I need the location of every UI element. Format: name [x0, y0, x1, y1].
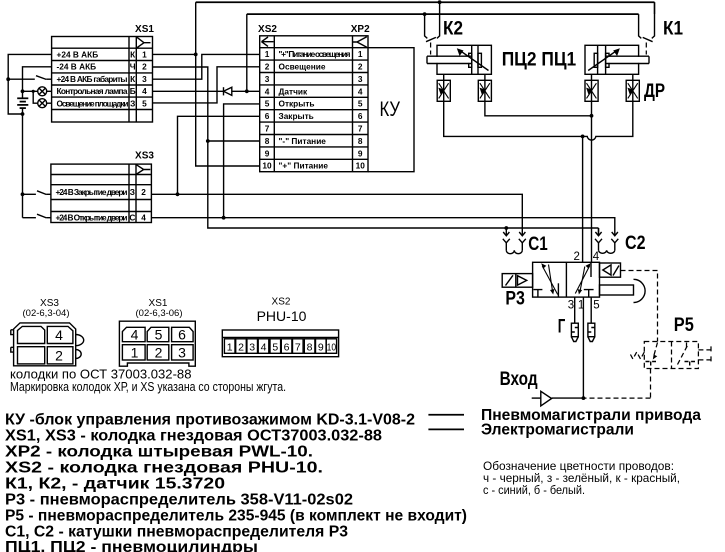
- valve P3 body: [533, 262, 600, 297]
- pneumatic line port5 to muffler: [590, 297, 592, 323]
- wire XS1 pin1 left to battery circuit: [8, 54, 51, 114]
- junction lamp2 branch: [32, 90, 35, 93]
- svg-text:5: 5: [265, 99, 270, 109]
- svg-text:1: 1: [131, 345, 139, 361]
- wire open net to coil C2: [151, 218, 614, 236]
- svg-text:Маркировка колодок ХР, и XS ук: Маркировка колодок ХР, и XS указана со с…: [10, 380, 286, 394]
- svg-text:10: 10: [327, 341, 337, 353]
- svg-text:ПЦ1, ПЦ2 - пневмоцилиндры: ПЦ1, ПЦ2 - пневмоцилиндры: [5, 539, 258, 552]
- svg-text:С1, С2 - катушки пневмораспред: С1, С2 - катушки пневмораспределителя Р3: [5, 524, 348, 541]
- svg-text:Освещение: Освещение: [279, 62, 326, 72]
- legend pneumatic line sample: [428, 414, 464, 416]
- svg-text:Электромагистрали: Электромагистрали: [481, 422, 634, 439]
- wire -24V to XS2 pin8: [208, 140, 260, 142]
- XS1 cell 5: [147, 327, 169, 341]
- pneumatic line port4 group: [485, 101, 592, 116]
- throttle check valve PC2 left: [437, 74, 450, 101]
- coil C1: [503, 228, 526, 254]
- valve P3 solenoid pilot left: [502, 274, 532, 288]
- connector face XS1 body: [119, 321, 195, 366]
- svg-text:4: 4: [593, 251, 600, 263]
- diode VD1: [224, 87, 232, 95]
- wire top bus +24V (line1): [196, 1, 655, 3]
- svg-text:Р3: Р3: [505, 289, 525, 310]
- sensor K2 contacts: [425, 2, 440, 42]
- switch SA2 close door: [23, 191, 51, 195]
- XS2 left pin numbers: [262, 49, 272, 171]
- lamp HL2 platform light: [38, 99, 52, 108]
- svg-text:3: 3: [358, 74, 363, 84]
- svg-text:Контрольная лампа: Контрольная лампа: [57, 86, 128, 96]
- svg-text:К2: К2: [443, 19, 463, 40]
- svg-text:Освещение площадки: Освещение площадки: [57, 98, 129, 108]
- throttle check valve PC2 right: [478, 74, 491, 101]
- junction coil C1 left: [504, 226, 508, 230]
- valve P3 return rod and spring: [600, 279, 646, 302]
- pilot dashed line P3 to P5: [621, 271, 658, 342]
- svg-text:-24 В АКБ: -24 В АКБ: [57, 62, 97, 72]
- XP2 header plug symbol: [353, 37, 367, 47]
- svg-text:2: 2: [238, 341, 244, 353]
- svg-text:К1: К1: [663, 19, 683, 40]
- svg-text:2: 2: [155, 345, 163, 361]
- svg-text:3: 3: [142, 74, 147, 84]
- svg-text:Р3 - пневмораспределитель 358-: Р3 - пневмораспределитель 358-V11-02s02: [5, 492, 353, 509]
- XS2 face pin numbers: [227, 341, 336, 353]
- svg-text:2: 2: [141, 187, 146, 197]
- sensor K1 actuation dashed link: [645, 43, 647, 55]
- junction -24V to XS2 pin8: [206, 139, 210, 143]
- wire +24V vertical from XS1 pin1 up to top bus and down to XS2 pin10: [196, 2, 260, 166]
- svg-text:С1: С1: [528, 234, 548, 255]
- valve P3 left position arrows: [533, 263, 558, 297]
- wire to lamp HL2: [33, 91, 38, 103]
- svg-text:(02-6,3-06): (02-6,3-06): [136, 308, 183, 319]
- svg-text:З: З: [130, 187, 135, 197]
- svg-text:3: 3: [178, 345, 186, 361]
- XS2 face cells 1-10: [224, 339, 336, 354]
- junction inlet port1: [582, 396, 586, 400]
- svg-text:XS2: XS2: [272, 297, 291, 308]
- svg-text:8: 8: [358, 136, 363, 146]
- XS2 header arrow symbol: [262, 37, 274, 46]
- XS3 cell 4: [47, 326, 73, 343]
- svg-text:2: 2: [142, 62, 147, 72]
- svg-text:5: 5: [142, 98, 147, 108]
- control unit KU box: [368, 48, 414, 172]
- svg-text:4: 4: [55, 327, 63, 343]
- svg-text:PHU-10: PHU-10: [257, 308, 307, 324]
- connector face XS2 body: [222, 330, 338, 357]
- switch SA1 gabarity: [8, 76, 51, 80]
- svg-text:6: 6: [358, 111, 363, 121]
- svg-text:2: 2: [55, 348, 63, 364]
- svg-text:Ч: Ч: [130, 62, 136, 72]
- wire diode to XS2 pin4 sensor: [232, 90, 260, 92]
- wire open net XS2 pin5 down to XS3 pin4 wire: [224, 104, 260, 218]
- svg-text:4: 4: [265, 86, 270, 96]
- wire top bus corner to K1 right: [654, 2, 656, 14]
- svg-text:XS1: XS1: [135, 24, 154, 35]
- XS1 wire color letters К Ч К Б З: [130, 49, 136, 108]
- svg-text:С2: С2: [625, 233, 646, 254]
- svg-text:XS3: XS3: [135, 151, 154, 162]
- valve P5 right ports: [698, 346, 711, 363]
- svg-text:9: 9: [358, 148, 363, 158]
- junction open net: [222, 216, 226, 220]
- XS1 pin numbers 1-5: [142, 49, 147, 108]
- svg-text:7: 7: [358, 124, 363, 134]
- pneumatic line port3 to muffler: [574, 297, 576, 323]
- wire XS1 pin4 to diode: [153, 90, 224, 92]
- svg-text:7: 7: [295, 341, 301, 353]
- wire lamp feed: [23, 90, 38, 92]
- wire XS1 pin1 right to +24V vertical: [153, 53, 196, 55]
- valve P3 port labels 2 4 3 1 5: [568, 251, 600, 312]
- junction K2 on top bus: [438, 0, 442, 4]
- svg-text:К1, К2, - датчик 15.3720: К1, К2, - датчик 15.3720: [5, 476, 225, 493]
- valve P3 right position arrows: [575, 262, 593, 297]
- junction battery branch row3: [6, 77, 10, 81]
- svg-text:З: З: [130, 98, 135, 108]
- XS1 cell 2: [147, 345, 169, 360]
- svg-text:КУ: КУ: [380, 98, 401, 121]
- svg-text:ДР: ДР: [644, 81, 665, 102]
- junction port4 line: [590, 114, 594, 118]
- wire XS1 pin2 left to battery: [23, 67, 52, 99]
- junction K2 on sensor bus: [423, 12, 427, 16]
- svg-text:Р5: Р5: [674, 315, 694, 336]
- pneumatic cylinder PC2: [427, 45, 491, 74]
- XS1 cell 3: [172, 345, 194, 360]
- svg-text:1: 1: [265, 49, 270, 59]
- connector XS2/XP2 table: [260, 36, 368, 172]
- pneumatic line PC1 left throttle to valve port4: [591, 101, 593, 262]
- svg-text:2: 2: [358, 62, 363, 72]
- svg-text:КУ -блок управления противозаж: КУ -блок управления противозажимом KD-3.…: [5, 412, 415, 429]
- valve P5 body dashed: [644, 342, 698, 369]
- XP2 right pin numbers: [356, 49, 366, 171]
- XS1 cell 6: [172, 327, 194, 341]
- wire close net to coil C1: [151, 194, 522, 236]
- XS3 header socket symbol: [137, 165, 151, 174]
- svg-text:с - синий, б - белый.: с - синий, б - белый.: [483, 483, 585, 497]
- lamp HL1 control: [38, 87, 52, 96]
- svg-text:Датчик: Датчик: [279, 86, 309, 96]
- wire XS2 pin2 to XS1 pin5 lighting: [153, 67, 260, 103]
- connector XS1 table: [52, 37, 153, 123]
- battery GB1: [17, 98, 28, 217]
- svg-text:1: 1: [358, 49, 363, 59]
- XS1 cell 1: [122, 345, 145, 360]
- wire XS1 pin2 -24V down and right to coils common: [153, 67, 599, 228]
- valve P3 pneumatic pilot right: [600, 263, 621, 277]
- muffler on port3: [571, 323, 578, 341]
- svg-text:8: 8: [265, 136, 270, 146]
- svg-text:3: 3: [249, 341, 255, 353]
- svg-text:3: 3: [568, 300, 574, 312]
- svg-text:6: 6: [178, 327, 186, 343]
- svg-text:10: 10: [262, 161, 272, 171]
- svg-text:Закрыть: Закрыть: [279, 111, 314, 121]
- svg-text:"+" Питание освещения: "+" Питание освещения: [279, 49, 351, 59]
- switch SA3 open door: [23, 214, 51, 218]
- svg-text:6: 6: [265, 111, 270, 121]
- junction battery bottom: [21, 112, 25, 116]
- svg-text:"-" Питание: "-" Питание: [279, 136, 327, 146]
- XS3 cell 2: [47, 347, 73, 364]
- svg-text:9: 9: [318, 341, 324, 353]
- svg-text:4: 4: [358, 86, 363, 96]
- svg-text:5: 5: [593, 300, 599, 312]
- pneumatic line port1 to inlet: [582, 297, 584, 398]
- svg-text:4: 4: [131, 327, 139, 343]
- valve P5 bottom port dashed to main line: [583, 369, 650, 399]
- svg-text:8: 8: [307, 341, 313, 353]
- throttle check valve PC1 left: [585, 74, 598, 101]
- junction lamp branch: [21, 89, 25, 93]
- svg-text:2: 2: [574, 251, 580, 263]
- junction sensor net: [245, 89, 249, 93]
- junction close net: [176, 192, 180, 196]
- svg-text:10: 10: [356, 161, 366, 171]
- svg-text:4: 4: [142, 86, 147, 96]
- svg-text:С: С: [129, 212, 135, 222]
- svg-text:(02-6,3-04): (02-6,3-04): [23, 308, 70, 319]
- coil C2: [595, 228, 618, 253]
- svg-text:4: 4: [141, 212, 146, 222]
- XS1 cell 4: [122, 327, 145, 341]
- svg-text:5: 5: [272, 341, 278, 353]
- inlet arrow: [532, 391, 584, 406]
- svg-text:Открыть: Открыть: [279, 99, 315, 109]
- svg-text:XS1, XS3 - колодка гнездовая О: XS1, XS3 - колодка гнездовая ОСТ37003.03…: [5, 428, 382, 445]
- svg-text:Р5 - пневмораспределитель 235-: Р5 - пневмораспределитель 235-945 (в ком…: [5, 508, 467, 525]
- pneumatic line to valve port2: [582, 136, 584, 262]
- svg-text:+24 В Открытие двери: +24 В Открытие двери: [56, 212, 128, 222]
- svg-text:4: 4: [261, 341, 267, 353]
- muffler on port5: [588, 323, 595, 341]
- svg-text:+24 В АКБ: +24 В АКБ: [57, 49, 99, 59]
- svg-text:7: 7: [265, 124, 270, 134]
- svg-text:XS2 - колодка гнездовая PHU-10: XS2 - колодка гнездовая PHU-10.: [5, 460, 323, 477]
- svg-text:ХР2 - колодка штыревая PWL-10.: ХР2 - колодка штыревая PWL-10.: [5, 444, 313, 461]
- wire XS1 pin3 to XS2 pin1 (lighting supply): [153, 54, 260, 79]
- junction pin1 +24V: [194, 53, 198, 57]
- wire sensor vertical to diode: [246, 14, 248, 91]
- svg-text:6: 6: [284, 341, 290, 353]
- sensor K2 actuation dashed link: [430, 43, 432, 55]
- XS1 header socket symbol: [137, 37, 151, 48]
- connector face XS3 body: [11, 323, 84, 366]
- sensor K1 contacts: [639, 2, 655, 42]
- svg-text:1: 1: [142, 49, 147, 59]
- wire close net XS2 pin6 down to XS3 pin2 wire: [178, 116, 260, 194]
- valve P5 spring: [629, 352, 644, 359]
- pneumatic line port2 group with jump: [444, 101, 633, 140]
- svg-text:Г: Г: [558, 317, 566, 338]
- XS3 cell blank top-left: [18, 326, 45, 343]
- svg-text:5: 5: [155, 327, 163, 343]
- junction port2 line: [581, 135, 585, 139]
- svg-text:Б: Б: [130, 86, 136, 96]
- svg-text:Вход: Вход: [500, 369, 538, 390]
- svg-text:+24 В АКБ габариты: +24 В АКБ габариты: [57, 74, 128, 84]
- svg-text:9: 9: [265, 148, 270, 158]
- XS3 cell blank bottom-left: [18, 347, 45, 364]
- wire colors note: [483, 459, 680, 497]
- svg-text:3: 3: [265, 74, 270, 84]
- junction close-door switch feed: [21, 192, 25, 196]
- svg-text:+24 В Закрытие двери: +24 В Закрытие двери: [56, 187, 128, 197]
- wire top bus sensor (line2): [247, 13, 639, 15]
- svg-text:"+" Питание: "+" Питание: [279, 161, 329, 171]
- svg-text:1: 1: [227, 341, 233, 353]
- legend electric line sample: [428, 428, 464, 430]
- throttle check valve PC1 right: [626, 74, 639, 101]
- pneumatic cylinder PC1: [585, 45, 649, 74]
- wire -24V down to coil C2 left: [598, 228, 600, 236]
- svg-text:XS2: XS2: [258, 24, 277, 35]
- svg-text:ПЦ2 ПЦ1: ПЦ2 ПЦ1: [502, 50, 577, 71]
- valve P5 internals: [646, 343, 696, 369]
- svg-text:5: 5: [358, 99, 363, 109]
- connector XS3 table: [51, 164, 151, 222]
- svg-text:2: 2: [265, 62, 270, 72]
- svg-text:XP2: XP2: [351, 24, 370, 35]
